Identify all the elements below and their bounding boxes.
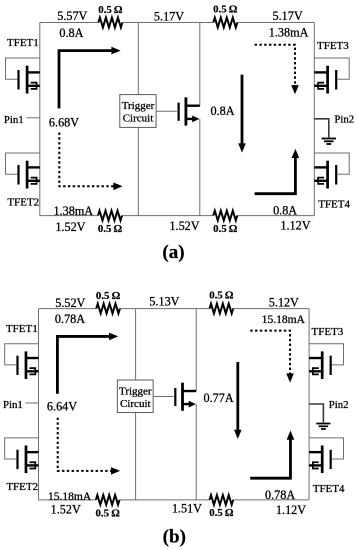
wire left rail (Pin1 bus) <box>39 23 41 216</box>
wire node Pin2 stub <box>309 404 323 422</box>
current flow arrow top-right (dashed) <box>255 45 295 86</box>
wire TFET3 gate loop <box>309 344 343 365</box>
transistor Q2 drain lead <box>183 390 197 392</box>
transistor Q1 source lead with arrow <box>186 118 194 120</box>
wire TFET4 gate loop <box>314 153 349 174</box>
svg-text:Pin2: Pin2 <box>329 399 349 411</box>
wire node Pin1 stub <box>25 402 38 404</box>
transistor TFET4 channel bar <box>321 446 324 474</box>
resistor Rb3 0.5 ohm <box>96 495 120 505</box>
transistor TFET4 gate bar <box>335 165 337 185</box>
svg-text:0.5 Ω: 0.5 Ω <box>213 3 238 15</box>
svg-text:TFET4: TFET4 <box>313 483 345 495</box>
transistor Q1 gate bar <box>178 103 180 121</box>
transistor Q2 gate bar <box>174 388 176 406</box>
svg-text:5.13V: 5.13V <box>149 295 179 309</box>
transistor Q2 source lead with arrow <box>183 403 191 405</box>
transistor TFET2 source lead <box>26 464 39 466</box>
wire top rail right segment <box>233 308 309 310</box>
svg-text:5.12V: 5.12V <box>269 295 299 309</box>
current flow arrow top-left (solid) <box>59 51 112 109</box>
transistor TFET2 gate bar <box>16 450 18 469</box>
current flow arrow top-right (dashed) <box>250 331 290 375</box>
transistor TFET3 source lead <box>309 370 322 372</box>
transistor TFET3 source tunnel marker <box>313 368 319 374</box>
transistor TFET1 source tunnel marker <box>29 368 35 374</box>
svg-text:1.52V: 1.52V <box>169 219 199 233</box>
svg-text:0.8A: 0.8A <box>59 26 83 40</box>
svg-text:0.5 Ω: 0.5 Ω <box>96 290 121 302</box>
transistor TFET2 channel bar <box>26 161 29 189</box>
wire inner vertical net 2 upper segment <box>199 23 201 106</box>
wire inner vertical net 2 lower segment <box>195 404 197 500</box>
svg-text:Pin1: Pin1 <box>3 399 23 411</box>
transistor TFET3 drain lead <box>314 71 327 73</box>
transistor TFET4 channel bar <box>326 161 329 189</box>
transistor TFET1 drain lead <box>26 357 39 359</box>
wire node Pin2 stub <box>314 119 329 138</box>
transistor TFET1 source lead <box>27 85 40 87</box>
transistor TFET1 gate bar <box>16 356 18 375</box>
wire inner vertical net 1 <box>137 23 139 216</box>
svg-text:0.77A: 0.77A <box>204 391 234 405</box>
wire bottom rail left segment <box>38 499 95 501</box>
svg-text:5.52V: 5.52V <box>55 296 85 310</box>
current flow arrow centre (solid down) <box>241 75 244 145</box>
trigger circuit block U2 <box>117 380 153 412</box>
resistor R2 0.5 ohm <box>213 18 237 28</box>
current flow arrow bottom-right (solid) <box>255 157 296 194</box>
transistor TFET4 source tunnel marker <box>318 178 324 184</box>
wire TFET2 gate loop <box>5 438 39 459</box>
wire top rail left segment <box>38 308 96 310</box>
transistor TFET1 drain lead <box>27 71 40 73</box>
transistor TFET4 drain lead <box>309 451 322 453</box>
svg-text:TFET3: TFET3 <box>317 40 349 52</box>
svg-text:6.68V: 6.68V <box>49 115 79 129</box>
wire top rail middle segment <box>122 22 213 24</box>
wire trigger output to gate <box>153 396 173 398</box>
transistor TFET4 source lead <box>314 180 327 182</box>
wire bottom rail middle segment <box>122 215 213 217</box>
svg-text:0.8A: 0.8A <box>273 203 297 217</box>
transistor Q1 channel bar <box>184 97 187 125</box>
svg-text:0.5 Ω: 0.5 Ω <box>209 507 234 519</box>
transistor TFET3 drain lead <box>309 357 322 359</box>
wire bottom rail middle segment <box>120 499 210 501</box>
svg-text:0.5 Ω: 0.5 Ω <box>209 290 234 302</box>
svg-text:15.18mA: 15.18mA <box>262 314 306 326</box>
current flow arrow centre (solid down) <box>236 362 239 431</box>
wire top rail middle segment <box>120 308 210 310</box>
resistor Rb1 0.5 ohm <box>96 304 120 314</box>
wire TFET1 gate loop <box>6 58 40 79</box>
transistor TFET1 channel bar <box>26 66 29 94</box>
svg-text:Circuit: Circuit <box>120 398 151 410</box>
resistor Rb4 0.5 ohm <box>210 495 234 505</box>
current flow arrow bottom-right (solid) <box>250 439 290 479</box>
transistor TFET4 source tunnel marker <box>313 462 319 468</box>
transistor Q2 channel bar <box>181 383 184 411</box>
transistor TFET2 gate bar <box>17 165 19 185</box>
resistor Rb2 0.5 ohm <box>210 304 234 314</box>
svg-text:Trigger: Trigger <box>119 385 152 397</box>
transistor TFET1 source tunnel marker <box>31 83 37 89</box>
svg-text:5.57V: 5.57V <box>57 9 87 23</box>
transistor TFET3 gate bar <box>330 356 332 375</box>
wire inner vertical net 2 lower segment <box>199 119 201 216</box>
svg-text:1.12V: 1.12V <box>276 503 306 517</box>
svg-text:5.17V: 5.17V <box>154 9 184 23</box>
svg-text:1.38mA: 1.38mA <box>269 26 309 40</box>
svg-text:6.64V: 6.64V <box>47 400 77 414</box>
transistor TFET1 channel bar <box>25 351 28 379</box>
transistor TFET2 drain lead <box>26 451 39 453</box>
svg-text:5.17V: 5.17V <box>273 9 303 23</box>
wire top rail right segment <box>237 22 314 24</box>
svg-text:Pin1: Pin1 <box>4 114 24 126</box>
wire TFET2 gate loop <box>6 153 40 174</box>
svg-text:0.5 Ω: 0.5 Ω <box>213 223 238 235</box>
svg-text:TFET1: TFET1 <box>6 323 38 335</box>
svg-text:0.5 Ω: 0.5 Ω <box>98 223 123 235</box>
transistor TFET2 drain lead <box>27 166 40 168</box>
svg-text:(b): (b) <box>163 527 186 548</box>
transistor TFET2 source tunnel marker <box>31 178 37 184</box>
svg-text:0.78A: 0.78A <box>265 488 295 502</box>
transistor TFET4 drain lead <box>314 166 327 168</box>
svg-text:1.38mA: 1.38mA <box>53 204 93 218</box>
resistor R3 0.5 ohm <box>98 211 122 221</box>
svg-text:TFET2: TFET2 <box>6 481 38 493</box>
transistor TFET3 source lead <box>314 85 327 87</box>
svg-text:TFET2: TFET2 <box>7 197 39 209</box>
current flow arrow bottom-left (dashed) <box>59 133 114 187</box>
ground symbol at Pin2 <box>322 138 336 140</box>
transistor Q1 drain lead <box>186 104 200 106</box>
transistor TFET3 gate bar <box>335 70 337 90</box>
ground symbol at Pin2 <box>316 423 330 425</box>
transistor TFET1 gate bar <box>17 70 19 90</box>
svg-text:TFET1: TFET1 <box>7 37 39 49</box>
wire top rail left segment <box>40 22 99 24</box>
svg-text:1.51V: 1.51V <box>172 502 202 516</box>
svg-text:TFET4: TFET4 <box>318 199 350 211</box>
wire TFET1 gate loop <box>5 344 39 365</box>
wire inner vertical net 1 <box>135 309 137 500</box>
wire bottom rail right segment <box>237 215 314 217</box>
resistor R4 0.5 ohm <box>213 211 237 221</box>
wire node Pin1 stub <box>26 117 40 119</box>
svg-text:Circuit: Circuit <box>123 113 154 125</box>
wire trigger output to gate <box>156 110 177 112</box>
trigger circuit block U1 <box>120 95 156 128</box>
transistor TFET3 channel bar <box>321 351 324 379</box>
svg-text:0.78A: 0.78A <box>55 312 85 326</box>
wire TFET4 gate loop <box>309 438 343 459</box>
current flow arrow bottom-left (dashed) <box>58 418 112 471</box>
svg-text:Trigger: Trigger <box>122 100 155 112</box>
wire TFET3 gate loop <box>314 58 349 79</box>
svg-text:1.52V: 1.52V <box>55 220 85 234</box>
resistor R1 0.5 ohm <box>98 18 122 28</box>
svg-text:TFET3: TFET3 <box>312 326 344 338</box>
transistor TFET2 source tunnel marker <box>29 462 35 468</box>
transistor TFET2 source lead <box>27 180 40 182</box>
wire inner vertical net 2 upper segment <box>195 309 197 391</box>
svg-text:0.5 Ω: 0.5 Ω <box>96 507 121 519</box>
transistor TFET3 channel bar <box>326 66 329 94</box>
svg-text:1.12V: 1.12V <box>280 219 310 233</box>
wire bottom rail left segment <box>40 215 98 217</box>
svg-text:Pin2: Pin2 <box>334 114 354 126</box>
svg-text:0.5 Ω: 0.5 Ω <box>98 4 123 16</box>
wire right rail (Pin2 bus) <box>313 23 315 216</box>
wire left rail (Pin1 bus) <box>37 309 39 500</box>
svg-text:1.52V: 1.52V <box>51 503 81 517</box>
wire bottom rail right segment <box>233 499 309 501</box>
svg-text:0.8A: 0.8A <box>210 104 234 118</box>
wire right rail (Pin2 bus) <box>308 309 310 500</box>
transistor TFET1 source lead <box>26 370 39 372</box>
transistor TFET3 source tunnel marker <box>318 83 324 89</box>
transistor TFET4 gate bar <box>330 450 332 469</box>
transistor TFET4 source lead <box>309 464 322 466</box>
transistor TFET2 channel bar <box>25 446 28 474</box>
current flow arrow top-left (solid) <box>57 336 109 393</box>
svg-text:(a): (a) <box>162 242 184 263</box>
svg-text:15.18mA: 15.18mA <box>48 491 92 503</box>
